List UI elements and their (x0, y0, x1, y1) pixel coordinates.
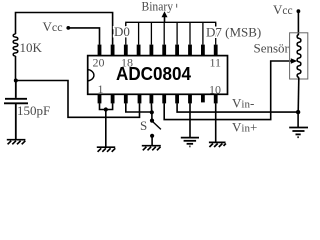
wire pin 10 DGND to ground (215, 103, 217, 142)
pin 10 stub (214, 95, 218, 104)
data bus wires D0-D7 (126, 23, 216, 45)
wire pin 7 Vin- line (177, 103, 298, 112)
pin 5 stub (149, 95, 153, 104)
wire junction to ground (105, 110, 107, 147)
pin 17 stub (137, 45, 141, 56)
svg-text:150pF: 150pF (17, 103, 50, 118)
node junction R1/C1/CLKIN (14, 79, 18, 83)
bus bracket over D0-D7 (126, 22, 216, 29)
pin 6 stub (162, 95, 166, 104)
svg-text:20: 20 (93, 56, 105, 70)
node Vcc right dot (297, 9, 301, 13)
svg-text:D0: D0 (114, 24, 130, 39)
pin 12 stub (201, 45, 205, 56)
wire pin 8 AGND to ground (189, 103, 191, 137)
switch S lever (152, 121, 161, 129)
svg-text:S: S (140, 118, 147, 133)
pin 11 stub (214, 45, 218, 56)
svg-text:Binary: Binary (142, 0, 174, 14)
svg-text:10: 10 (209, 83, 221, 97)
pin 8 stub (188, 95, 192, 104)
sensor box outline (290, 33, 308, 79)
pin 18 stub (124, 45, 128, 56)
IC U1 notch (88, 70, 94, 81)
wire junction to pin 4 CLK IN (16, 81, 140, 118)
node switch bottom terminal (150, 134, 154, 138)
node pin1/2 ground junction (104, 107, 108, 111)
svg-text:10K: 10K (20, 40, 43, 55)
svg-text:Vcc: Vcc (273, 2, 293, 17)
arrowhead potentiometer wiper (291, 58, 297, 64)
pin 1 stub (98, 95, 102, 104)
capacitor C1 150pF top plate (5, 81, 27, 99)
wire Vcc to pin 20 (68, 28, 99, 45)
wire switch to ground (151, 136, 153, 145)
pin 20 stub (98, 45, 102, 56)
svg-text:Sensör: Sensör (254, 41, 290, 56)
node Vcc left dot (66, 26, 70, 30)
arrow Binary output (164, 15, 166, 23)
pin 9 stub (201, 95, 205, 103)
ground below pin 10 (hatched) (209, 142, 226, 147)
pin 15 stub (162, 45, 166, 56)
svg-text:Vin-: Vin- (232, 96, 254, 111)
pin 4 stub (138, 95, 142, 104)
wire Vcc to sensor top (297, 11, 299, 35)
node switch pole (150, 119, 154, 123)
wire node to right ground (297, 112, 299, 127)
capacitor C1 150pF bottom plate (4, 103, 28, 139)
sensor resistive element (potentiometer) (297, 35, 301, 78)
ground below pin 8 (earth) (181, 138, 199, 147)
pin 3 stub (124, 95, 128, 104)
pin 16 stub (149, 45, 153, 56)
tick after Binary (176, 4, 178, 8)
svg-text:11: 11 (210, 56, 222, 70)
pin 7 stub (175, 95, 179, 104)
resistor R1 10K (13, 34, 18, 56)
pin 14 stub (175, 45, 179, 56)
svg-text:D7 (MSB): D7 (MSB) (206, 25, 261, 40)
ground below pins 1,2 (hatched) (97, 147, 116, 152)
wire pin 5 INTR to switch node (150, 103, 152, 112)
pin 13 stub (188, 45, 192, 56)
wire resistor bottom to junction (15, 56, 17, 81)
wire pin 3 WR to switch (126, 103, 152, 112)
pin 2 stub (111, 95, 115, 104)
ground below C1 (hatched) (7, 140, 26, 145)
node Vin-/sensor/ground junction (296, 110, 300, 114)
wire pin1-pin2 tie (100, 103, 113, 109)
node switch top (150, 110, 154, 114)
ground below switch (hatched) (142, 146, 161, 151)
wire pin 6 Vin+ line (164, 61, 292, 120)
wire switch top to pole (151, 112, 153, 120)
wire top frame from left rail to pin 19 (16, 13, 113, 45)
svg-text:18: 18 (121, 56, 133, 70)
pin 19 stub (111, 45, 115, 56)
svg-text:1: 1 (98, 82, 104, 96)
IC U1 ADC0804 body (88, 56, 228, 95)
svg-text:Vin+: Vin+ (232, 120, 257, 135)
ground right (earth) (289, 128, 308, 138)
wire sensor bottom to Vin- node (297, 78, 300, 113)
svg-text:Vcc: Vcc (43, 19, 63, 34)
